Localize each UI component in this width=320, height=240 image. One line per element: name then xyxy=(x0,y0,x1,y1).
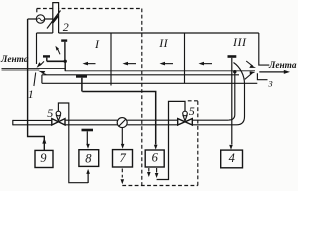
svg-text:8: 8 xyxy=(85,151,92,165)
svg-text:7: 7 xyxy=(120,151,127,165)
svg-text:Лента: Лента xyxy=(268,61,297,71)
svg-text:II: II xyxy=(158,36,168,50)
svg-text:III: III xyxy=(232,35,247,49)
svg-text:I: I xyxy=(94,37,100,51)
svg-text:6: 6 xyxy=(152,151,159,165)
svg-text:З: З xyxy=(268,78,273,88)
svg-text:1: 1 xyxy=(28,87,34,101)
svg-text:5: 5 xyxy=(47,106,53,120)
svg-text:2: 2 xyxy=(63,20,69,34)
svg-text:4: 4 xyxy=(229,151,235,165)
svg-text:Лента: Лента xyxy=(0,55,29,65)
svg-text:9: 9 xyxy=(40,151,47,165)
svg-text:5: 5 xyxy=(189,104,195,118)
